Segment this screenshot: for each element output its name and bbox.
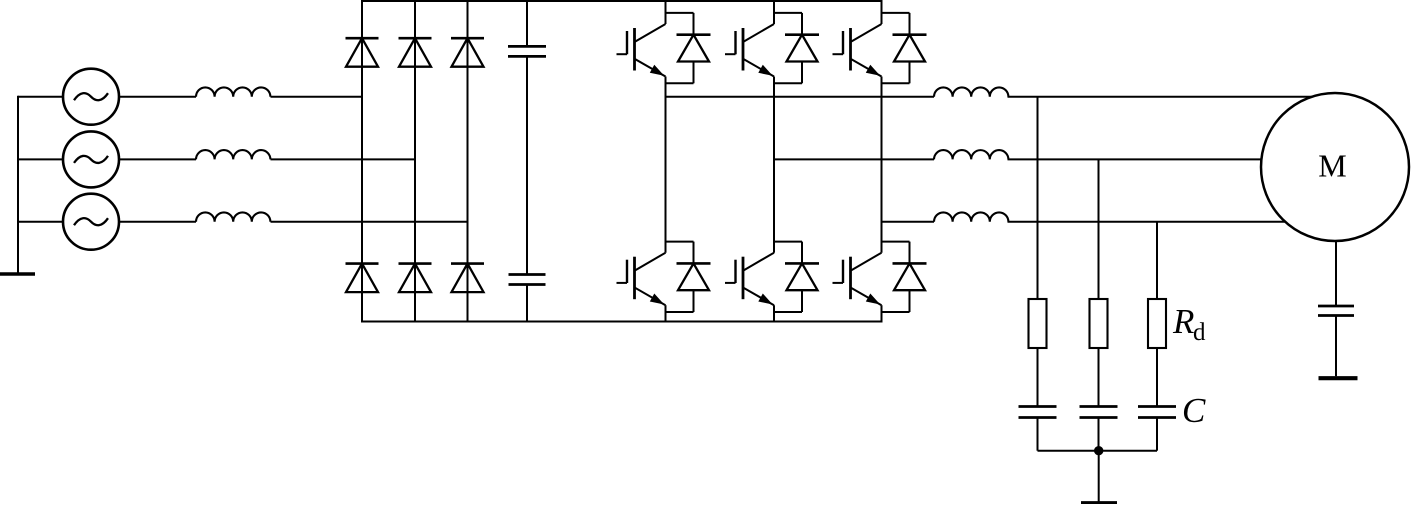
wire inverter leg 3 midpoint: [881, 77, 883, 253]
wire phase V to line reactor: [118, 158, 196, 160]
wire inverter leg 3 emitter lead: [881, 305, 883, 321]
resistor Rd2: [1090, 299, 1108, 348]
diode VD11 (freewheel lower leg 2): [774, 242, 819, 312]
wire filter branch 3 drop: [1156, 222, 1158, 299]
wire DC+ bus: [361, 0, 883, 2]
wire star point to ground: [1098, 451, 1100, 502]
ground (motor frame): [1319, 376, 1358, 380]
ac source G2 (phase V): [63, 131, 119, 187]
capacitor C3: [1138, 407, 1176, 418]
diode VD10 (freewheel lower leg 1): [666, 242, 711, 312]
label M: [1318, 148, 1346, 184]
wire DC-link cap leg lower: [526, 285, 528, 322]
transistor V3 (IGBT upper leg 3): [833, 24, 882, 77]
resistor Rd1: [1029, 299, 1047, 348]
wire inverter leg 3 collector lead: [881, 1, 883, 24]
label C: [1182, 391, 1206, 430]
wire inverter leg 1 midpoint: [665, 77, 667, 253]
svg-text:d: d: [1193, 319, 1206, 346]
wire star-point bus: [1038, 450, 1158, 452]
transistor V5 (IGBT lower leg 2): [725, 253, 774, 306]
wire inverter output V: [774, 158, 934, 160]
wire output U to motor: [1008, 96, 1337, 98]
wire inverter leg 1 emitter lead: [665, 305, 667, 321]
wire output W to motor: [1008, 221, 1337, 223]
motor M (circle): [1261, 93, 1409, 241]
diode VD5 (rectifier lower): [399, 264, 432, 293]
wire inverter leg 2 midpoint: [773, 77, 775, 253]
transistor V2 (IGBT upper leg 2): [725, 24, 774, 77]
inductor L2 (line reactor V): [196, 150, 270, 159]
wire filter branch 2 drop: [1098, 159, 1100, 299]
diode VD2 (rectifier upper): [399, 38, 432, 66]
inductor L6 (output reactor W): [934, 212, 1008, 221]
wire DC- bus: [361, 321, 883, 323]
inductor L5 (output reactor V): [934, 150, 1008, 159]
wire C1 to star point: [1037, 418, 1039, 451]
wire inverter leg 2 collector lead: [773, 1, 775, 24]
diode VD6 (rectifier lower): [451, 264, 484, 293]
wire Rd2 to C2: [1098, 348, 1100, 407]
wire neutral bus: [17, 96, 19, 274]
wire C3 to star point: [1156, 418, 1158, 451]
resistor Rd3: [1148, 299, 1166, 348]
wire inverter output W: [882, 221, 935, 223]
svg-text:C: C: [1182, 391, 1206, 430]
capacitor Cm (motor stray): [1318, 306, 1354, 316]
wire C2 to star point: [1098, 418, 1100, 451]
wire inverter leg 1 collector lead: [665, 1, 667, 24]
node star point (junction dot): [1094, 446, 1103, 455]
capacitor C1: [1019, 407, 1057, 418]
wire motor frame lead: [1335, 241, 1337, 306]
wire filter branch 1 drop: [1037, 97, 1039, 299]
diode VD1 (rectifier upper): [346, 38, 379, 66]
ac source G3 (phase W): [63, 194, 119, 250]
wire inverter leg 2 emitter lead: [773, 305, 775, 321]
wire phase W to line reactor: [118, 221, 196, 223]
wire reactor U to rectifier leg 1: [271, 96, 364, 98]
wire Rd3 to C3: [1156, 348, 1158, 407]
wire output V to motor: [1008, 158, 1337, 160]
wire inverter output U: [666, 96, 935, 98]
capacitor Cd1 (DC link upper): [508, 46, 546, 56]
inductor L4 (output reactor U): [934, 87, 1008, 96]
ground (filter star point): [1081, 501, 1117, 505]
wire phase U stub: [18, 96, 64, 98]
transistor V4 (IGBT lower leg 1): [617, 253, 666, 306]
wire phase W stub: [18, 221, 64, 223]
diode VD8 (freewheel upper leg 2): [774, 13, 819, 83]
inductor L1 (line reactor U): [196, 87, 270, 96]
wire rectifier leg 3: [467, 1, 469, 322]
wire reactor V to rectifier leg 2: [271, 158, 416, 160]
wire DC-link cap leg upper: [526, 1, 528, 46]
diode VD7 (freewheel upper leg 1): [666, 13, 711, 83]
wire rectifier leg 2: [414, 1, 416, 322]
diode VD4 (rectifier lower): [346, 264, 379, 293]
svg-text:R: R: [1172, 302, 1194, 341]
capacitor Cd2 (DC link lower): [509, 275, 546, 285]
wire phase V stub: [18, 158, 64, 160]
ground (source neutral): [0, 272, 35, 276]
wire phase U to line reactor: [118, 96, 196, 98]
svg-text:M: M: [1318, 148, 1346, 184]
transistor V1 (IGBT upper leg 1): [617, 24, 666, 77]
diode VD9 (freewheel upper leg 3): [882, 13, 927, 83]
capacitor C2: [1080, 407, 1118, 418]
inductor L3 (line reactor W): [196, 212, 270, 221]
diode VD12 (freewheel lower leg 3): [882, 242, 927, 312]
wire Rd1 to C1: [1037, 348, 1039, 407]
wire Cm to frame ground: [1335, 316, 1337, 377]
transistor V6 (IGBT lower leg 3): [833, 253, 882, 306]
label Rd: [1172, 302, 1206, 346]
diode VD3 (rectifier upper): [451, 38, 484, 66]
wire reactor W to rectifier leg 3: [271, 221, 469, 223]
wire rectifier leg 1: [361, 1, 363, 322]
wire DC-link cap middle: [526, 56, 528, 274]
ac source G1 (phase U): [63, 69, 119, 125]
